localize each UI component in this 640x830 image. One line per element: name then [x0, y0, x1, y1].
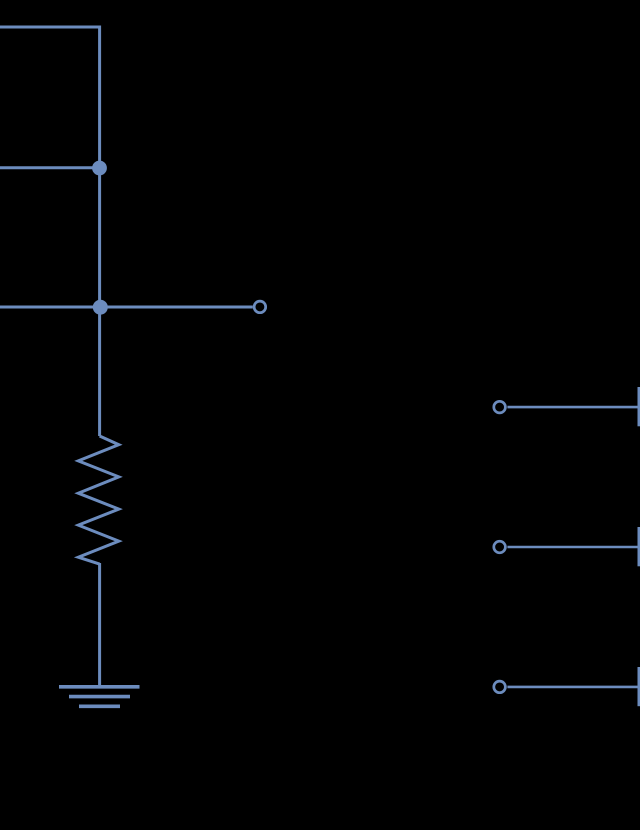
resistor R1	[78, 436, 119, 564]
terminal open circle at node B tap	[254, 301, 266, 313]
wire vertical to ground	[98, 563, 101, 687]
ground	[59, 687, 140, 707]
pin bar at right edge T1	[637, 387, 640, 426]
wire T2 to right edge	[507, 546, 638, 549]
wire T1 to right edge	[507, 406, 638, 409]
pin bar at right edge T3	[637, 667, 640, 706]
wire top horizontal from left edge	[0, 26, 100, 29]
node A junction dot	[92, 161, 107, 176]
pin bar at right edge T2	[637, 527, 640, 566]
node B junction dot	[93, 300, 108, 315]
wire left horizontal at node A	[0, 166, 100, 169]
terminal open circle T1	[494, 401, 506, 413]
terminal open circle T3	[494, 681, 506, 693]
wire vertical main upper	[98, 26, 101, 437]
terminal open circle T2	[494, 541, 506, 553]
wire left horizontal at node B	[0, 306, 253, 309]
wire T3 to right edge	[507, 686, 638, 689]
